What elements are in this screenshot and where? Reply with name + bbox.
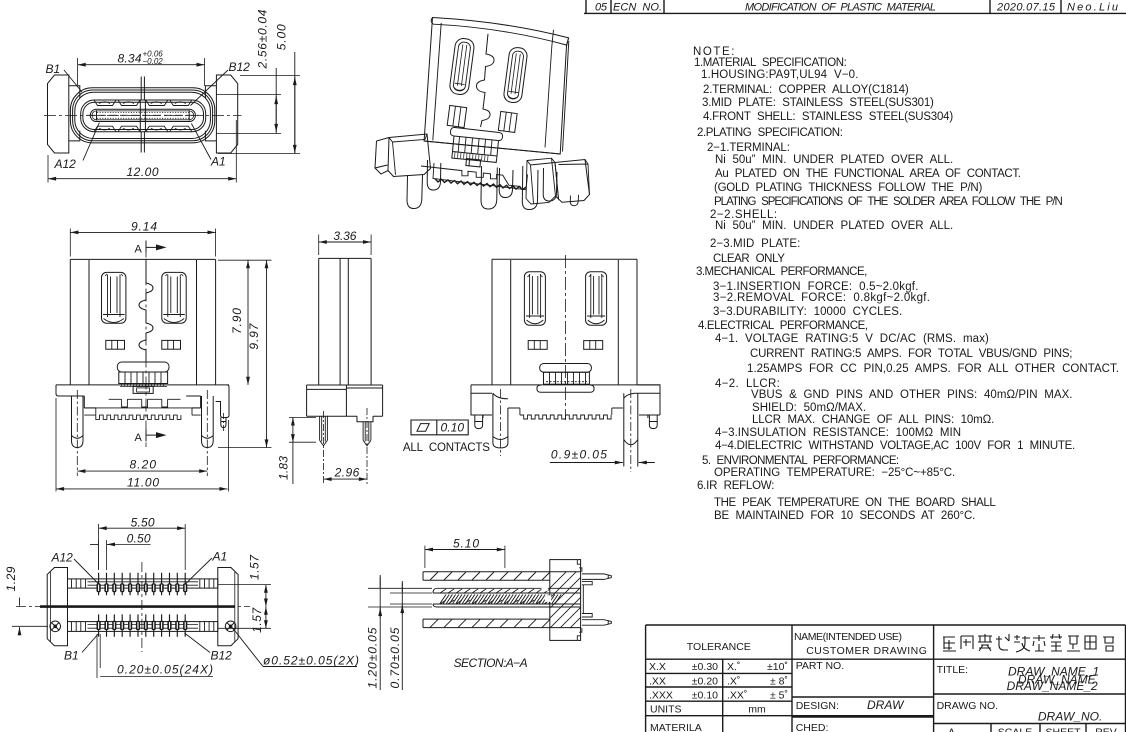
svg-text:1.57: 1.57: [250, 606, 264, 632]
svg-text:3.36: 3.36: [333, 229, 356, 243]
svg-text:1.25AMPS FOR CC PIN,0.25 AMPS.: 1.25AMPS FOR CC PIN,0.25 AMPS. FOR ALL O…: [747, 363, 1119, 375]
svg-text:9.14: 9.14: [131, 220, 157, 234]
svg-text:3−2.REMOVAL FORCE: 0.8kgf~2.0k: 3−2.REMOVAL FORCE: 0.8kgf~2.0kgf.: [713, 292, 930, 304]
svg-text:±10˚: ±10˚: [767, 661, 788, 673]
svg-text:11.00: 11.00: [127, 476, 159, 490]
svg-text:A: A: [135, 244, 143, 256]
svg-text:X.X: X.X: [649, 661, 666, 673]
svg-text:05: 05: [595, 2, 608, 14]
svg-text:.XXX: .XXX: [649, 690, 673, 702]
svg-text:mm: mm: [748, 704, 766, 716]
svg-text:PART NO.: PART NO.: [796, 660, 844, 672]
svg-text:A12: A12: [54, 157, 77, 171]
svg-text:4.ELECTRICAL PERFORMANCE,: 4.ELECTRICAL PERFORMANCE,: [698, 320, 868, 332]
svg-text:1.HOUSING:PA9T,UL94 V−0.: 1.HOUSING:PA9T,UL94 V−0.: [701, 69, 858, 81]
svg-text:NAME(INTENDED USE): NAME(INTENDED USE): [794, 631, 902, 643]
svg-text:SECTION:A−A: SECTION:A−A: [454, 656, 528, 670]
svg-text:A: A: [135, 432, 143, 444]
svg-text:B12: B12: [229, 60, 251, 74]
svg-text:X.˚: X.˚: [727, 661, 740, 673]
svg-text:2−3.MID PLATE:: 2−3.MID PLATE:: [710, 238, 800, 250]
svg-text:SHEET: SHEET: [1045, 726, 1081, 732]
svg-text:6.IR REFLOW:: 6.IR REFLOW:: [697, 480, 774, 492]
svg-text:8.34: 8.34: [118, 52, 142, 66]
svg-text:9.97: 9.97: [247, 322, 261, 349]
svg-text:DRAW_NAME_2: DRAW_NAME_2: [1007, 679, 1098, 693]
svg-text:2.PLATING SPECIFICATION:: 2.PLATING SPECIFICATION:: [697, 127, 843, 139]
svg-text:1.83: 1.83: [277, 456, 291, 480]
svg-text:A: A: [948, 726, 955, 732]
svg-text:3.MID PLATE: STAINLESS STEEL(S: 3.MID PLATE: STAINLESS STEEL(SUS301): [702, 97, 934, 109]
svg-text:2−1.TERMINAL:: 2−1.TERMINAL:: [707, 142, 790, 154]
svg-text:Ni 50u” MIN. UNDER PLATED OVER: Ni 50u” MIN. UNDER PLATED OVER ALL.: [715, 154, 953, 166]
svg-text:4−3.INSULATION RESISTANCE: 100: 4−3.INSULATION RESISTANCE: 100MΩ MIN: [715, 427, 961, 439]
svg-text:TOLERANCE: TOLERANCE: [687, 641, 751, 653]
svg-text:.XX: .XX: [649, 676, 666, 688]
svg-text:A1: A1: [212, 550, 228, 564]
svg-text:0.20±0.05(24X): 0.20±0.05(24X): [117, 663, 213, 677]
svg-text:PLATING SPECIFICATIONS OF THE: PLATING SPECIFICATIONS OF THE SOLDER ARE…: [714, 196, 1063, 208]
svg-text:0.70±0.05: 0.70±0.05: [388, 627, 402, 688]
svg-text:B12: B12: [211, 649, 233, 663]
svg-text:A12: A12: [51, 551, 74, 565]
svg-text:Ni 50u” MIN. UNDER PLATED OVER: Ni 50u” MIN. UNDER PLATED OVER ALL.: [715, 220, 953, 232]
svg-text:THE PEAK TEMPERATURE ON THE BO: THE PEAK TEMPERATURE ON THE BOARD SHALL: [714, 497, 996, 509]
svg-text:4.FRONT SHELL: STAINLESS STEEL: 4.FRONT SHELL: STAINLESS STEEL(SUS304): [703, 111, 953, 123]
svg-text:DRAWG NO.: DRAWG NO.: [937, 700, 998, 712]
svg-text:Au PLATED ON THE FUNCTIONAL AR: Au PLATED ON THE FUNCTIONAL AREA OF CONT…: [715, 168, 1021, 180]
svg-text:DESIGN:: DESIGN:: [796, 700, 839, 712]
svg-text:A1: A1: [210, 155, 226, 169]
svg-text:0.9±0.05: 0.9±0.05: [551, 448, 607, 462]
svg-text:DRAW: DRAW: [867, 698, 905, 712]
svg-text:ø0.52±0.05(2X): ø0.52±0.05(2X): [263, 654, 359, 668]
svg-text:Neo.Liu: Neo.Liu: [1067, 2, 1118, 14]
svg-text:4−1. VOLTAGE RATING:5 V DC/AC: 4−1. VOLTAGE RATING:5 V DC/AC (RMS. max): [715, 333, 989, 345]
svg-text:4−4.DIELECTRIC WITHSTAND VOLTA: 4−4.DIELECTRIC WITHSTAND VOLTAGE,AC 100V…: [715, 440, 1075, 452]
svg-text:7.90: 7.90: [230, 308, 244, 334]
svg-text:± 8˚: ± 8˚: [770, 676, 788, 688]
svg-text:MODIFICATION OF PLASTIC MATERI: MODIFICATION OF PLASTIC MATERIAL: [745, 2, 936, 14]
svg-text:2020.07.15: 2020.07.15: [996, 2, 1056, 14]
svg-text:SCALE: SCALE: [998, 726, 1032, 732]
svg-text:LLCR MAX. CHANGE OF ALL PINS:: LLCR MAX. CHANGE OF ALL PINS: 10mΩ.: [752, 414, 994, 426]
svg-text:±0.10: ±0.10: [692, 690, 718, 702]
svg-text:1.29: 1.29: [4, 566, 18, 591]
svg-text:± 5˚: ± 5˚: [770, 690, 788, 702]
svg-text:2.TERMINAL: COPPER ALLOY(C1814: 2.TERMINAL: COPPER ALLOY(C1814): [703, 84, 909, 96]
svg-text:±0.20: ±0.20: [692, 676, 718, 688]
svg-text:CHED:: CHED:: [796, 722, 829, 732]
svg-text:.XX˚: .XX˚: [727, 690, 747, 702]
svg-text:3−3.DURABILITY: 10000 CYCLES.: 3−3.DURABILITY: 10000 CYCLES.: [713, 306, 902, 318]
svg-text:B1: B1: [46, 62, 61, 76]
svg-text:5. ENVIRONMENTAL PERFORMANCE:: 5. ENVIRONMENTAL PERFORMANCE:: [702, 455, 899, 467]
svg-text:ALL CONTACTS: ALL CONTACTS: [403, 442, 490, 454]
svg-text:DRAW_NO.: DRAW_NO.: [1038, 710, 1102, 724]
svg-text:1.57: 1.57: [247, 554, 261, 580]
svg-text:CURRENT RATING:5 AMPS. FOR TOT: CURRENT RATING:5 AMPS. FOR TOTAL VBUS/GN…: [750, 348, 1073, 360]
svg-text:B1: B1: [64, 649, 79, 663]
svg-text:2.56±0.04: 2.56±0.04: [256, 9, 270, 69]
svg-text:REV: REV: [1095, 726, 1117, 732]
svg-text:1.MATERIAL SPECIFICATION:: 1.MATERIAL SPECIFICATION:: [694, 57, 847, 69]
svg-text:SHIELD: 50mΩ/MAX.: SHIELD: 50mΩ/MAX.: [752, 402, 866, 414]
svg-text:±0.30: ±0.30: [692, 661, 718, 673]
svg-text:VBUS & GND PINS AND OTHER PINS: VBUS & GND PINS AND OTHER PINS: 40mΩ/PIN…: [751, 389, 1073, 401]
svg-text:.X˚: .X˚: [727, 676, 740, 688]
svg-text:5.10: 5.10: [453, 536, 479, 550]
svg-text:5.50: 5.50: [131, 515, 155, 529]
svg-text:CLEAR ONLY: CLEAR ONLY: [713, 253, 785, 265]
svg-text:CUSTOMER DRAWING: CUSTOMER DRAWING: [806, 645, 927, 657]
svg-text:0.50: 0.50: [127, 531, 151, 545]
svg-text:0.10: 0.10: [441, 421, 465, 435]
svg-text:TITLE:: TITLE:: [937, 664, 969, 676]
svg-text:3.MECHANICAL PERFORMANCE,: 3.MECHANICAL PERFORMANCE,: [696, 266, 867, 278]
svg-text:12.00: 12.00: [127, 165, 159, 179]
svg-text:(GOLD PLATING THICKNESS FOLLOW: (GOLD PLATING THICKNESS FOLLOW THE P/N): [714, 182, 982, 194]
svg-text:2.96: 2.96: [334, 465, 360, 479]
svg-text:1.20±0.05: 1.20±0.05: [366, 627, 380, 688]
svg-text:5.00: 5.00: [274, 24, 288, 50]
svg-text:UNITS: UNITS: [650, 704, 682, 716]
svg-text:−0.02: −0.02: [143, 57, 164, 66]
svg-text:8.20: 8.20: [130, 458, 157, 472]
svg-text:OPERATING TEMPERATURE: −25°C~+: OPERATING TEMPERATURE: −25°C~+85°C.: [714, 467, 955, 479]
svg-text:MATERILA: MATERILA: [650, 722, 702, 732]
svg-text:ECN NO.: ECN NO.: [613, 2, 662, 14]
svg-text:BE MAINTAINED FOR 10 SECONDS A: BE MAINTAINED FOR 10 SECONDS AT 260°C.: [714, 510, 975, 522]
